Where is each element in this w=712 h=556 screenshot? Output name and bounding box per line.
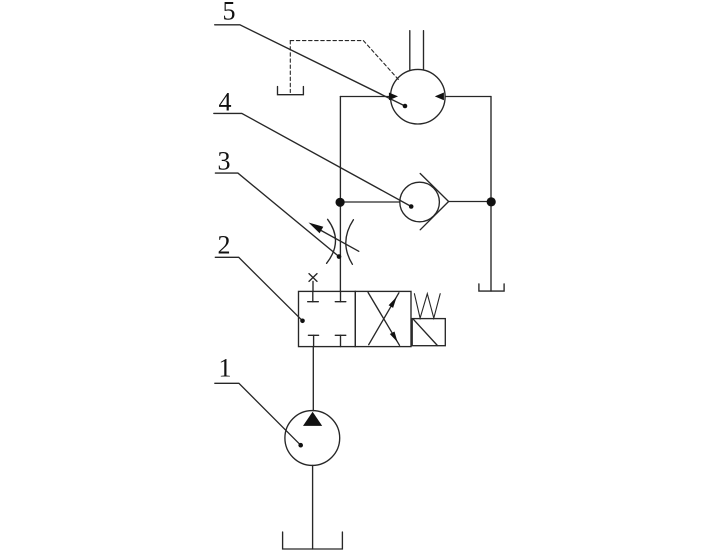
svg-text:4: 4	[219, 88, 232, 117]
svg-text:5: 5	[223, 0, 236, 26]
svg-text:3: 3	[218, 147, 231, 176]
svg-text:1: 1	[219, 354, 232, 383]
svg-text:2: 2	[218, 231, 231, 260]
